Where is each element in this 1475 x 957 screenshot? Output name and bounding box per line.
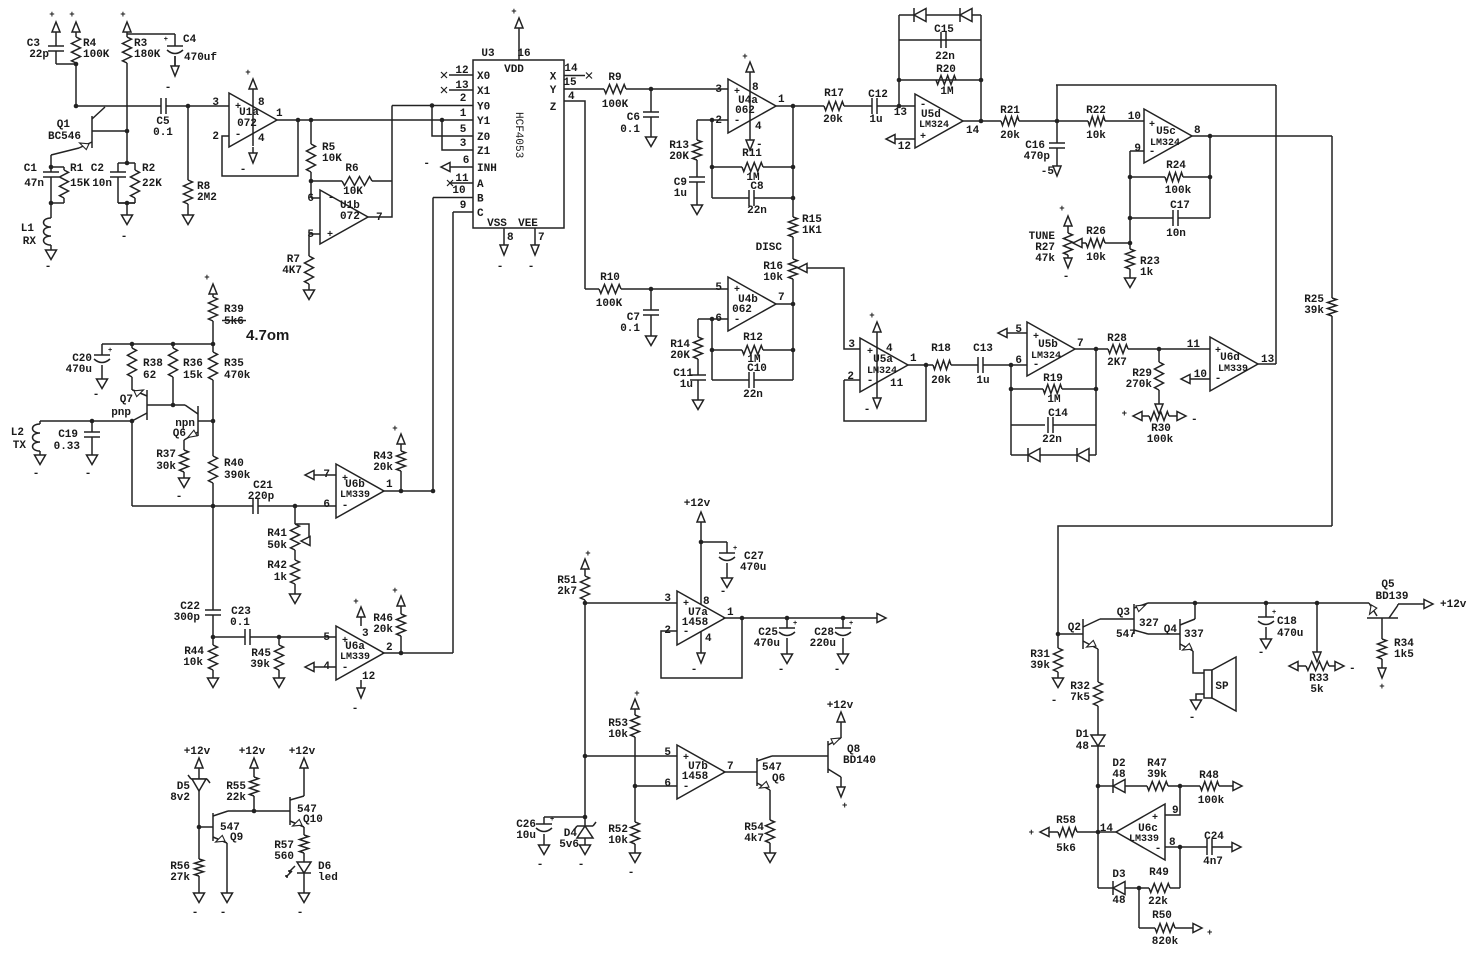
- svg-text:R9: R9: [608, 72, 621, 84]
- svg-text:-: -: [45, 261, 52, 273]
- svg-text:1k: 1k: [274, 572, 288, 584]
- svg-text:1u: 1u: [869, 114, 882, 126]
- svg-text:1M: 1M: [940, 86, 954, 98]
- svg-text:+: +: [245, 68, 250, 78]
- svg-text:+: +: [1207, 928, 1212, 938]
- svg-text:39k: 39k: [1030, 660, 1050, 672]
- svg-text:C15: C15: [934, 24, 954, 36]
- svg-text:BC546: BC546: [48, 131, 81, 143]
- svg-text:9: 9: [1134, 143, 1141, 155]
- svg-text:Y: Y: [550, 85, 557, 97]
- svg-text:390k: 390k: [224, 470, 251, 482]
- svg-text:R39: R39: [224, 304, 244, 316]
- svg-text:R21: R21: [1000, 105, 1020, 117]
- svg-text:C6: C6: [627, 112, 640, 124]
- svg-text:20K: 20K: [669, 151, 689, 163]
- svg-text:+12v: +12v: [1440, 599, 1467, 611]
- svg-text:Z1: Z1: [477, 146, 491, 158]
- svg-text:8v2: 8v2: [170, 792, 190, 804]
- svg-text:Q5: Q5: [1381, 579, 1395, 591]
- svg-text:-: -: [342, 500, 349, 512]
- svg-text:SP: SP: [1215, 681, 1229, 693]
- svg-text:+: +: [69, 10, 74, 20]
- svg-text:20K: 20K: [670, 350, 690, 362]
- svg-text:-: -: [864, 404, 871, 416]
- svg-text:8: 8: [258, 97, 265, 109]
- svg-text:470k: 470k: [224, 370, 251, 382]
- svg-text:-: -: [121, 231, 128, 243]
- svg-text:10: 10: [1128, 111, 1141, 123]
- svg-text:8: 8: [703, 596, 710, 608]
- svg-text:+: +: [392, 586, 397, 596]
- svg-text:337: 337: [1184, 629, 1204, 641]
- svg-text:+: +: [793, 620, 797, 628]
- svg-text:470p: 470p: [1024, 151, 1051, 163]
- svg-text:6: 6: [664, 778, 671, 790]
- svg-text:-: -: [1258, 647, 1265, 659]
- svg-text:DISC: DISC: [756, 242, 783, 254]
- svg-text:13: 13: [894, 107, 908, 119]
- svg-text:0.1: 0.1: [153, 127, 173, 139]
- svg-text:-: -: [720, 586, 727, 598]
- svg-text:X1: X1: [477, 86, 491, 98]
- svg-text:-: -: [165, 82, 172, 94]
- svg-text:A: A: [477, 179, 484, 191]
- svg-text:547: 547: [1116, 629, 1136, 641]
- svg-text:9: 9: [460, 200, 467, 212]
- svg-text:L2: L2: [11, 427, 24, 439]
- svg-text:C18: C18: [1277, 616, 1297, 628]
- svg-text:39k: 39k: [250, 659, 270, 671]
- svg-text:R2: R2: [142, 163, 155, 175]
- svg-text:U3: U3: [481, 48, 495, 60]
- svg-text:4: 4: [568, 91, 575, 103]
- svg-text:5k6: 5k6: [1056, 843, 1076, 855]
- svg-text:22K: 22K: [142, 178, 162, 190]
- svg-text:R28: R28: [1107, 333, 1127, 345]
- svg-text:220u: 220u: [810, 638, 836, 650]
- svg-text:20k: 20k: [823, 114, 843, 126]
- svg-text:Q4: Q4: [1164, 624, 1178, 636]
- svg-text:470u: 470u: [1277, 628, 1303, 640]
- svg-text:100K: 100K: [596, 298, 623, 310]
- svg-text:4: 4: [886, 343, 893, 355]
- svg-text:10k: 10k: [183, 657, 203, 669]
- svg-text:+: +: [511, 7, 516, 17]
- svg-text:LM339: LM339: [340, 490, 370, 501]
- svg-text:300p: 300p: [174, 612, 201, 624]
- svg-text:-: -: [192, 907, 199, 919]
- svg-text:470u: 470u: [754, 638, 780, 650]
- svg-text:-: -: [578, 859, 585, 871]
- svg-text:+: +: [920, 132, 926, 143]
- svg-text:+12v: +12v: [684, 498, 711, 510]
- svg-text:-5: -5: [1041, 166, 1055, 178]
- svg-text:100K: 100K: [83, 49, 110, 61]
- svg-text:2: 2: [847, 371, 854, 383]
- svg-text:270k: 270k: [1126, 379, 1153, 391]
- svg-text:+: +: [392, 424, 397, 434]
- svg-text:11: 11: [890, 378, 904, 390]
- svg-text:LM339: LM339: [1218, 364, 1248, 375]
- svg-text:+: +: [49, 10, 54, 20]
- svg-text:10: 10: [1194, 369, 1207, 381]
- svg-text:R37: R37: [156, 449, 176, 461]
- svg-text:+12v: +12v: [827, 700, 854, 712]
- svg-text:R12: R12: [743, 332, 763, 344]
- svg-text:1: 1: [778, 94, 785, 106]
- svg-text:10k: 10k: [608, 729, 628, 741]
- svg-text:10k: 10k: [608, 835, 628, 847]
- svg-text:22n: 22n: [747, 205, 767, 217]
- svg-text:11: 11: [1187, 339, 1201, 351]
- svg-text:10k: 10k: [1086, 252, 1106, 264]
- svg-text:1: 1: [910, 353, 917, 365]
- svg-text:5k6: 5k6: [224, 316, 244, 328]
- svg-text:5: 5: [664, 747, 671, 759]
- svg-text:-: -: [1063, 271, 1070, 283]
- svg-text:8: 8: [1194, 125, 1201, 137]
- svg-text:6: 6: [307, 193, 314, 205]
- svg-text:100k: 100k: [1147, 434, 1174, 446]
- svg-text:6: 6: [1015, 355, 1022, 367]
- svg-text:Y1: Y1: [477, 116, 491, 128]
- svg-text:1M: 1M: [1047, 394, 1061, 406]
- svg-text:7: 7: [727, 761, 734, 773]
- svg-text:-: -: [297, 907, 304, 919]
- svg-text:C1: C1: [24, 163, 38, 175]
- svg-text:2: 2: [715, 115, 722, 127]
- svg-text:7: 7: [1077, 338, 1084, 350]
- svg-text:R19: R19: [1043, 373, 1063, 385]
- svg-text:062: 062: [732, 304, 752, 316]
- svg-text:-: -: [778, 664, 785, 676]
- svg-text:1K1: 1K1: [802, 225, 822, 237]
- svg-text:RX: RX: [23, 236, 37, 248]
- svg-text:LM324: LM324: [867, 366, 897, 377]
- svg-text:12: 12: [455, 65, 468, 77]
- svg-text:C4: C4: [183, 34, 197, 46]
- svg-text:20k: 20k: [373, 624, 393, 636]
- svg-text:-: -: [93, 389, 100, 401]
- svg-text:6: 6: [323, 499, 330, 511]
- svg-text:R11: R11: [742, 148, 762, 160]
- svg-text:470uf: 470uf: [184, 52, 217, 64]
- svg-text:1458: 1458: [682, 771, 709, 783]
- svg-text:14: 14: [966, 125, 980, 137]
- svg-text:R40: R40: [224, 458, 244, 470]
- svg-text:2: 2: [386, 642, 393, 654]
- svg-text:C24: C24: [1204, 831, 1224, 843]
- svg-text:6: 6: [463, 155, 470, 167]
- svg-text:4.7om: 4.7om: [246, 327, 289, 344]
- svg-text:11: 11: [455, 173, 469, 185]
- svg-text:C19: C19: [58, 429, 78, 441]
- svg-text:15k: 15k: [183, 370, 203, 382]
- svg-text:22k: 22k: [1148, 896, 1168, 908]
- svg-text:12: 12: [898, 141, 911, 153]
- svg-text:22n: 22n: [743, 389, 763, 401]
- svg-text:14: 14: [564, 63, 578, 75]
- svg-text:1k: 1k: [1140, 267, 1154, 279]
- svg-text:+: +: [869, 311, 874, 321]
- svg-text:12: 12: [362, 671, 375, 683]
- svg-text:-: -: [176, 491, 183, 503]
- svg-text:C13: C13: [973, 343, 993, 355]
- svg-text:7: 7: [376, 212, 383, 224]
- svg-text:10k: 10k: [1086, 130, 1106, 142]
- svg-text:Q9: Q9: [230, 832, 243, 844]
- svg-text:Q3: Q3: [1117, 607, 1131, 619]
- svg-text:50k: 50k: [267, 540, 287, 552]
- svg-text:Q7: Q7: [120, 394, 133, 406]
- svg-text:-: -: [240, 164, 247, 176]
- svg-text:Z: Z: [550, 102, 557, 114]
- svg-text:39k: 39k: [1304, 305, 1324, 317]
- svg-text:48: 48: [1076, 741, 1090, 753]
- svg-text:10n: 10n: [92, 178, 112, 190]
- svg-text:3: 3: [212, 97, 219, 109]
- svg-text:C10: C10: [747, 363, 767, 375]
- svg-text:-: -: [235, 129, 242, 141]
- svg-text:62: 62: [143, 370, 156, 382]
- svg-text:U5c: U5c: [1156, 126, 1176, 138]
- svg-text:10u: 10u: [516, 830, 536, 842]
- svg-text:C12: C12: [868, 89, 888, 101]
- svg-text:100K: 100K: [602, 99, 629, 111]
- svg-text:2: 2: [212, 131, 219, 143]
- svg-text:2K7: 2K7: [1107, 357, 1127, 369]
- svg-text:R50: R50: [1152, 910, 1172, 922]
- svg-text:-: -: [328, 192, 335, 204]
- svg-text:R36: R36: [183, 358, 203, 370]
- svg-text:HCF4053: HCF4053: [512, 112, 524, 158]
- svg-text:13: 13: [455, 80, 469, 92]
- svg-text:R22: R22: [1086, 105, 1106, 117]
- svg-text:7: 7: [538, 232, 545, 244]
- svg-text:820k: 820k: [1152, 936, 1179, 948]
- svg-text:2M2: 2M2: [197, 192, 217, 204]
- svg-text:R58: R58: [1056, 815, 1076, 827]
- svg-text:+: +: [353, 597, 358, 607]
- svg-text:1: 1: [460, 108, 467, 120]
- svg-text:+12v: +12v: [239, 746, 266, 758]
- svg-text:100k: 100k: [1198, 795, 1225, 807]
- svg-text:R49: R49: [1149, 867, 1169, 879]
- svg-text:20k: 20k: [931, 375, 951, 387]
- svg-text:22p: 22p: [29, 49, 49, 61]
- svg-text:-: -: [834, 664, 841, 676]
- svg-text:0.1: 0.1: [620, 323, 640, 335]
- svg-text:47k: 47k: [1035, 253, 1055, 265]
- svg-text:14: 14: [1100, 823, 1114, 835]
- svg-text:1u: 1u: [680, 379, 693, 391]
- svg-text:VDD: VDD: [504, 64, 524, 76]
- svg-text:X: X: [550, 72, 557, 84]
- svg-text:R1: R1: [70, 163, 84, 175]
- svg-text:5: 5: [323, 632, 330, 644]
- svg-text:20k: 20k: [1000, 130, 1020, 142]
- svg-text:3: 3: [460, 138, 467, 150]
- svg-text:5v6: 5v6: [559, 839, 579, 851]
- svg-text:U6d: U6d: [1220, 352, 1240, 364]
- svg-text:39k: 39k: [1147, 769, 1167, 781]
- svg-text:5k: 5k: [1310, 684, 1324, 696]
- svg-text:D1: D1: [1076, 729, 1090, 741]
- svg-text:7: 7: [778, 292, 785, 304]
- svg-text:+: +: [1272, 609, 1276, 617]
- svg-text:10K: 10K: [343, 186, 363, 198]
- svg-text:3: 3: [362, 628, 369, 640]
- svg-text:C17: C17: [1170, 200, 1190, 212]
- svg-text:+: +: [849, 620, 853, 628]
- svg-text:+: +: [327, 230, 333, 241]
- svg-text:8: 8: [507, 232, 514, 244]
- svg-text:10K: 10K: [322, 153, 342, 165]
- svg-text:8: 8: [1169, 837, 1176, 849]
- svg-text:-: -: [423, 158, 430, 170]
- svg-text:30k: 30k: [156, 461, 176, 473]
- svg-text:15K: 15K: [70, 178, 90, 190]
- svg-text:9: 9: [1172, 805, 1179, 817]
- svg-text:L1: L1: [21, 223, 35, 235]
- svg-text:BD140: BD140: [843, 755, 876, 767]
- svg-text:48: 48: [1112, 895, 1126, 907]
- svg-text:+: +: [585, 549, 590, 559]
- svg-text:-: -: [1155, 843, 1162, 855]
- svg-text:3: 3: [848, 339, 855, 351]
- svg-text:C: C: [477, 208, 484, 220]
- svg-text:+: +: [120, 10, 125, 20]
- svg-text:-: -: [691, 664, 698, 676]
- svg-text:LM324: LM324: [919, 120, 949, 131]
- svg-text:4K7: 4K7: [282, 265, 302, 277]
- svg-text:1k5: 1k5: [1394, 649, 1414, 661]
- svg-text:+: +: [1149, 120, 1155, 131]
- svg-text:1u: 1u: [674, 188, 687, 200]
- svg-text:10k: 10k: [763, 272, 783, 284]
- svg-text:27k: 27k: [170, 872, 190, 884]
- svg-text:2: 2: [460, 93, 467, 105]
- svg-text:22n: 22n: [1042, 434, 1062, 446]
- svg-text:Q10: Q10: [303, 814, 323, 826]
- svg-text:1458: 1458: [682, 617, 709, 629]
- svg-text:INH: INH: [477, 163, 497, 175]
- svg-text:Q2: Q2: [1068, 622, 1081, 634]
- svg-text:LM324: LM324: [1031, 351, 1061, 362]
- svg-text:062: 062: [735, 105, 755, 117]
- svg-text:5: 5: [715, 282, 722, 294]
- svg-text:22n: 22n: [935, 51, 955, 63]
- svg-text:TX: TX: [13, 440, 27, 452]
- svg-text:Q6: Q6: [772, 773, 785, 785]
- svg-text:10: 10: [452, 185, 465, 197]
- svg-text:8: 8: [752, 82, 759, 94]
- svg-text:470u: 470u: [66, 364, 92, 376]
- svg-text:-: -: [1191, 414, 1198, 426]
- svg-text:560: 560: [274, 851, 294, 863]
- svg-text:220p: 220p: [248, 491, 275, 503]
- svg-text:LM339: LM339: [340, 652, 370, 663]
- svg-text:0.33: 0.33: [54, 441, 81, 453]
- svg-text:-: -: [1189, 712, 1196, 724]
- svg-text:U5a: U5a: [873, 354, 893, 366]
- svg-text:+: +: [164, 36, 168, 44]
- svg-text:R26: R26: [1086, 226, 1106, 238]
- svg-text:R35: R35: [224, 358, 244, 370]
- svg-text:180K: 180K: [134, 49, 161, 61]
- svg-text:3: 3: [715, 84, 722, 96]
- svg-text:-: -: [628, 867, 635, 879]
- svg-text:BD139: BD139: [1375, 591, 1408, 603]
- svg-text:0.1: 0.1: [230, 617, 250, 629]
- svg-text:5: 5: [1015, 324, 1022, 336]
- svg-text:C8: C8: [750, 181, 764, 193]
- svg-text:+: +: [733, 545, 737, 553]
- svg-text:pnp: pnp: [111, 407, 131, 419]
- svg-text:R10: R10: [600, 272, 620, 284]
- svg-text:+: +: [1379, 682, 1384, 692]
- svg-text:R42: R42: [267, 560, 287, 572]
- svg-text:U5b: U5b: [1038, 339, 1058, 351]
- svg-text:+: +: [742, 52, 747, 62]
- svg-text:47n: 47n: [24, 178, 44, 190]
- svg-text:R38: R38: [143, 358, 163, 370]
- svg-text:Q6: Q6: [173, 428, 186, 440]
- svg-text:C2: C2: [91, 163, 104, 175]
- svg-text:5: 5: [460, 124, 467, 136]
- svg-text:-: -: [85, 468, 92, 480]
- svg-text:4n7: 4n7: [1203, 856, 1223, 868]
- svg-text:1: 1: [276, 108, 283, 120]
- svg-text:-: -: [537, 859, 544, 871]
- svg-text:D3: D3: [1112, 869, 1126, 881]
- svg-text:4: 4: [258, 133, 265, 145]
- svg-text:Y0: Y0: [477, 102, 490, 114]
- svg-text:0.1: 0.1: [620, 124, 640, 136]
- svg-text:1u: 1u: [976, 375, 989, 387]
- svg-text:+12v: +12v: [184, 746, 211, 758]
- svg-text:-: -: [1051, 695, 1058, 707]
- svg-text:470u: 470u: [740, 562, 766, 574]
- svg-text:+: +: [1059, 204, 1064, 214]
- svg-text:R18: R18: [931, 343, 951, 355]
- svg-text:48: 48: [1112, 769, 1126, 781]
- svg-text:1: 1: [727, 607, 734, 619]
- svg-text:+12v: +12v: [289, 746, 316, 758]
- svg-text:4: 4: [755, 121, 762, 133]
- svg-text:B: B: [477, 194, 484, 206]
- svg-text:-: -: [528, 261, 535, 273]
- svg-text:R24: R24: [1166, 160, 1186, 172]
- svg-text:15: 15: [563, 77, 577, 89]
- svg-text:LM324: LM324: [1150, 138, 1180, 149]
- svg-text:327: 327: [1139, 618, 1159, 630]
- svg-text:Z0: Z0: [477, 132, 490, 144]
- svg-text:4k7: 4k7: [744, 833, 764, 845]
- svg-text:4: 4: [705, 633, 712, 645]
- svg-text:R48: R48: [1199, 770, 1219, 782]
- svg-text:-: -: [220, 907, 227, 919]
- svg-text:+: +: [842, 801, 847, 811]
- svg-text:R6: R6: [345, 163, 358, 175]
- svg-text:100k: 100k: [1165, 185, 1192, 197]
- svg-text:R20: R20: [936, 64, 956, 76]
- svg-text:+: +: [550, 816, 554, 824]
- svg-text:-: -: [1349, 663, 1356, 675]
- svg-text:led: led: [318, 872, 338, 884]
- svg-text:2k7: 2k7: [557, 586, 577, 598]
